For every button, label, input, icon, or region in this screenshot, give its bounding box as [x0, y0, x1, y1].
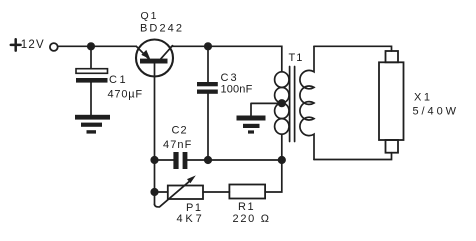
terminal +12V input: [50, 43, 58, 51]
svg-text:100nF: 100nF: [221, 83, 253, 95]
ground (T1 tap): [237, 116, 266, 134]
node C1 top: [87, 42, 95, 50]
wire top rail right to T1 primary top: [172, 46, 282, 72]
svg-text:BD242: BD242: [140, 22, 182, 34]
potentiometer P1: [168, 186, 203, 200]
svg-text:X1: X1: [414, 92, 432, 104]
capacitor C1: [76, 69, 108, 74]
svg-text:12V: 12V: [21, 39, 45, 51]
node P1 left: [150, 188, 158, 196]
wire C2 left: [155, 159, 174, 161]
label +12V: [11, 39, 21, 50]
wire C2 right: [187, 159, 281, 161]
wire Q1 base down: [154, 64, 156, 161]
wire P1 to R1: [203, 191, 229, 193]
wire C3 bottom lead: [207, 94, 209, 160]
wire center tap to ground: [251, 103, 282, 115]
transistor Q1: [136, 40, 173, 77]
capacitor C3: [197, 82, 218, 86]
svg-text:47nF: 47nF: [163, 139, 192, 151]
node C3 top: [204, 42, 212, 50]
lamp X1: [379, 51, 404, 153]
wire secondary bottom to lamp: [314, 153, 392, 160]
wire secondary top to lamp: [314, 46, 392, 51]
transformer T1 secondary: [300, 46, 314, 159]
wire C3 top lead: [207, 46, 209, 82]
svg-text:5/40W: 5/40W: [413, 106, 457, 118]
wire P1 left lead: [155, 191, 168, 193]
node primary center tap: [278, 99, 286, 107]
node primary bottom / C2 rail right: [278, 156, 286, 164]
svg-text:C1: C1: [109, 74, 128, 86]
svg-text:220 Ω: 220 Ω: [233, 213, 270, 225]
node Q1 base / C2 left: [150, 156, 158, 164]
transformer T1 core: [290, 67, 295, 142]
wire R1 right up to node: [265, 160, 282, 192]
svg-text:R1: R1: [238, 201, 255, 213]
svg-text:C3: C3: [221, 72, 239, 84]
svg-text:470µF: 470µF: [108, 89, 143, 101]
svg-text:C2: C2: [172, 124, 188, 136]
capacitor C2: [173, 152, 178, 169]
svg-text:4K7: 4K7: [177, 213, 203, 225]
wire C1 to ground: [90, 83, 92, 115]
svg-text:Q1: Q1: [141, 10, 159, 22]
node C3 bottom: [204, 156, 212, 164]
svg-text:T1: T1: [289, 52, 304, 64]
wire top rail left: [58, 45, 137, 47]
wire base rail down to P1: [154, 160, 156, 205]
wire C1 lead down: [90, 46, 92, 68]
transformer T1 primary: [275, 72, 289, 160]
resistor R1: [229, 185, 265, 199]
ground (C1): [75, 115, 110, 134]
